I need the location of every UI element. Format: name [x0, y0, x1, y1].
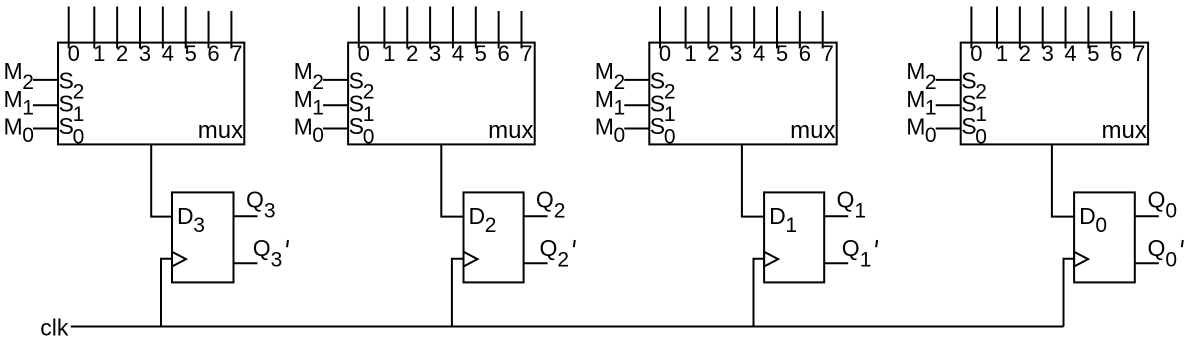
svg-text:7: 7	[230, 41, 242, 66]
wire mux U2 output to D2 input	[441, 144, 463, 216]
svg-text:0: 0	[358, 41, 370, 66]
svg-text:2: 2	[925, 71, 937, 94]
wire mux U3 data input pin 4	[753, 7, 755, 49]
svg-text:2: 2	[554, 199, 566, 222]
wire mux U2 data input pin 0	[358, 7, 360, 49]
wire mux U4 data input pin 2	[1019, 7, 1021, 49]
svg-text:1: 1	[614, 96, 626, 119]
svg-text:0: 0	[970, 41, 982, 66]
wire M2 to S2 select input (mux U1)	[33, 79, 58, 81]
svg-text:mux: mux	[198, 117, 243, 144]
svg-text:Q: Q	[253, 235, 271, 261]
svg-text:1: 1	[383, 41, 395, 66]
wire mux U3 data input pin 5	[776, 7, 778, 49]
flip-flop U6 (D2) box	[464, 192, 524, 282]
svg-text:0: 0	[1165, 249, 1177, 272]
svg-text:1: 1	[363, 103, 375, 126]
flip-flop U8 (D0) box	[1074, 192, 1135, 282]
svg-text:D: D	[177, 203, 194, 229]
svg-text:0: 0	[659, 41, 671, 66]
svg-text:6: 6	[207, 41, 219, 66]
svg-text:3: 3	[271, 249, 283, 272]
svg-text:1: 1	[975, 103, 987, 126]
wire mux U3 data input pin 3	[730, 7, 732, 49]
svg-text:S: S	[59, 68, 74, 94]
svg-text:D: D	[769, 203, 786, 229]
svg-text:0: 0	[312, 124, 324, 147]
wire M1 to S1 select input (mux U4)	[936, 104, 961, 106]
svg-text:Q: Q	[536, 186, 554, 212]
svg-text:S: S	[349, 113, 364, 139]
wire mux U3 data input pin 2	[707, 7, 709, 49]
svg-text:6: 6	[799, 41, 811, 66]
wire M2 to S2 select input (mux U2)	[323, 79, 348, 81]
svg-text:0: 0	[975, 125, 987, 148]
wire clk bus to flip-flop U8 clock input	[1064, 259, 1075, 327]
svg-text:2: 2	[707, 41, 719, 66]
svg-text:2: 2	[22, 71, 34, 94]
wire mux U1 data input pin 3	[139, 7, 141, 49]
wire mux U4 data input pin 1	[996, 7, 998, 49]
svg-text:1: 1	[73, 103, 85, 126]
svg-text:M: M	[294, 58, 313, 84]
wire mux U2 data input pin 5	[475, 7, 477, 49]
wire mux U3 data input pin 6	[799, 11, 801, 48]
flip-flop U6 clock edge triangle	[464, 252, 478, 267]
svg-text:mux: mux	[488, 117, 533, 144]
svg-text:1: 1	[925, 96, 937, 119]
wire mux U1 data input pin 6	[208, 11, 210, 48]
wire mux U1 data input pin 2	[116, 7, 118, 49]
svg-text:S: S	[59, 113, 74, 139]
wire mux U1 output to D3 input	[151, 144, 172, 216]
wire mux U1 data input pin 5	[185, 7, 187, 49]
wire Q3 output	[234, 215, 258, 217]
svg-text:clk: clk	[40, 314, 69, 340]
svg-text:2: 2	[485, 214, 497, 237]
svg-text:2: 2	[664, 81, 676, 104]
svg-text:M: M	[4, 113, 23, 139]
svg-text:Q: Q	[1148, 235, 1166, 261]
wire M1 to S1 select input (mux U3)	[624, 104, 649, 106]
wire mux U2 data input pin 4	[452, 7, 454, 49]
svg-text:S: S	[961, 113, 976, 139]
svg-text:2: 2	[1019, 41, 1031, 66]
wire Q1 output	[824, 215, 848, 217]
wire mux U3 output to D1 input	[742, 144, 764, 216]
svg-text:7: 7	[822, 41, 834, 66]
svg-text:0: 0	[22, 124, 34, 147]
svg-text:1: 1	[22, 96, 34, 119]
svg-text:1: 1	[312, 96, 324, 119]
svg-text:2: 2	[363, 81, 375, 104]
svg-text:3: 3	[193, 214, 205, 237]
wire mux U2 data input pin 7	[521, 11, 523, 48]
wire mux U2 data input pin 6	[498, 11, 500, 48]
flip-flop U7 (D1) box	[764, 192, 824, 282]
svg-text:M: M	[906, 86, 925, 112]
svg-text:Q: Q	[540, 235, 558, 261]
svg-text:mux: mux	[790, 117, 835, 144]
wire M0 to S0 select input (mux U4)	[936, 128, 961, 130]
svg-text:0: 0	[1095, 214, 1107, 237]
flip-flop U5 clock edge triangle	[172, 252, 186, 267]
wire mux U4 output to D0 input	[1052, 144, 1074, 216]
svg-text:M: M	[4, 86, 23, 112]
svg-text:S: S	[650, 113, 665, 139]
wire M2 to S2 select input (mux U4)	[936, 79, 961, 81]
wire mux U1 data input pin 7	[230, 11, 232, 48]
wire mux U4 data input pin 4	[1065, 7, 1067, 49]
wire Q2 output	[524, 215, 548, 217]
mux U2 box	[348, 43, 535, 145]
svg-text:M: M	[595, 58, 614, 84]
svg-text:2: 2	[73, 81, 85, 104]
svg-text:M: M	[4, 58, 23, 84]
svg-text:0: 0	[925, 124, 937, 147]
svg-text:S: S	[650, 68, 665, 94]
svg-text:2: 2	[312, 71, 324, 94]
wire M0 to S0 select input (mux U2)	[323, 128, 348, 130]
wire M0 to S0 select input (mux U3)	[624, 128, 649, 130]
svg-text:4: 4	[753, 41, 765, 66]
wire mux U4 data input pin 0	[970, 7, 972, 49]
flip-flop U5 (D3) box	[172, 192, 234, 282]
svg-text:0: 0	[1165, 199, 1177, 222]
svg-text:2: 2	[614, 71, 626, 94]
wire mux U3 data input pin 0	[659, 7, 661, 49]
svg-text:M: M	[294, 113, 313, 139]
svg-text:0: 0	[664, 125, 676, 148]
flip-flop U7 clock edge triangle	[764, 252, 778, 267]
wire mux U3 data input pin 7	[822, 11, 824, 48]
svg-text:3: 3	[1042, 41, 1054, 66]
svg-text:mux: mux	[1102, 117, 1147, 144]
wire mux U2 data input pin 2	[406, 7, 408, 49]
svg-text:D: D	[1079, 203, 1096, 229]
svg-text:S: S	[961, 68, 976, 94]
svg-text:3: 3	[429, 41, 441, 66]
svg-text:5: 5	[185, 41, 197, 66]
mux U4 box	[961, 43, 1148, 145]
svg-text:M: M	[595, 86, 614, 112]
svg-text:Q: Q	[1148, 186, 1166, 212]
svg-text:6: 6	[1110, 41, 1122, 66]
svg-text:Q: Q	[842, 235, 860, 261]
svg-text:1: 1	[664, 103, 676, 126]
wire mux U1 data input pin 0	[68, 7, 70, 49]
svg-text:1: 1	[93, 41, 105, 66]
wire mux U4 data input pin 6	[1110, 11, 1112, 48]
svg-text:0: 0	[73, 125, 85, 148]
svg-text:4: 4	[162, 41, 174, 66]
svg-text:7: 7	[520, 41, 532, 66]
wire Q0 output	[1135, 215, 1159, 217]
wire mux U4 data input pin 3	[1042, 7, 1044, 49]
wire clk bus to flip-flop U5 clock input	[161, 259, 172, 327]
wire mux U2 data input pin 3	[429, 7, 431, 49]
svg-text:M: M	[906, 58, 925, 84]
svg-text:5: 5	[1087, 41, 1099, 66]
svg-text:D: D	[469, 203, 486, 229]
wire Q3' output	[234, 262, 258, 264]
wire mux U2 data input pin 1	[383, 7, 385, 49]
svg-text:M: M	[906, 113, 925, 139]
wire Q0' output	[1135, 262, 1159, 264]
svg-text:5: 5	[776, 41, 788, 66]
wire mux U4 data input pin 5	[1087, 7, 1089, 49]
wire M2 to S2 select input (mux U3)	[624, 79, 649, 81]
svg-text:2: 2	[116, 41, 128, 66]
svg-text:1: 1	[785, 214, 797, 237]
svg-text:2: 2	[406, 41, 418, 66]
svg-text:Q: Q	[837, 186, 855, 212]
svg-text:6: 6	[498, 41, 510, 66]
svg-text:0: 0	[614, 124, 626, 147]
svg-text:5: 5	[475, 41, 487, 66]
svg-text:7: 7	[1133, 41, 1145, 66]
svg-text:4: 4	[452, 41, 464, 66]
wire Q2' output	[524, 262, 548, 264]
svg-text:1: 1	[854, 199, 866, 222]
wire Q1' output	[824, 262, 848, 264]
svg-text:1: 1	[684, 41, 696, 66]
wire clk bus to flip-flop U6 clock input	[452, 259, 464, 327]
svg-text:2: 2	[975, 81, 987, 104]
svg-text:0: 0	[68, 41, 80, 66]
svg-text:2: 2	[557, 249, 569, 272]
svg-text:0: 0	[363, 125, 375, 148]
svg-text:1: 1	[996, 41, 1008, 66]
svg-text:S: S	[349, 68, 364, 94]
wire clk bus to flip-flop U7 clock input	[754, 259, 765, 327]
svg-text:3: 3	[139, 41, 151, 66]
svg-text:3: 3	[264, 199, 276, 222]
mux U3 box	[649, 43, 836, 145]
wire M0 to S0 select input (mux U1)	[33, 128, 58, 130]
wire M1 to S1 select input (mux U2)	[323, 104, 348, 106]
mux U1 box	[58, 43, 244, 145]
svg-text:3: 3	[730, 41, 742, 66]
svg-text:1: 1	[860, 249, 872, 272]
wire M1 to S1 select input (mux U1)	[33, 104, 58, 106]
svg-text:M: M	[595, 113, 614, 139]
wire mux U4 data input pin 7	[1133, 11, 1135, 48]
svg-text:Q: Q	[246, 186, 264, 212]
wire clk bus	[71, 326, 1064, 328]
wire mux U3 data input pin 1	[685, 7, 687, 49]
svg-text:M: M	[294, 86, 313, 112]
svg-text:4: 4	[1064, 41, 1076, 66]
flip-flop U8 clock edge triangle	[1074, 252, 1088, 267]
wire mux U1 data input pin 1	[93, 7, 95, 49]
wire mux U1 data input pin 4	[162, 7, 164, 49]
